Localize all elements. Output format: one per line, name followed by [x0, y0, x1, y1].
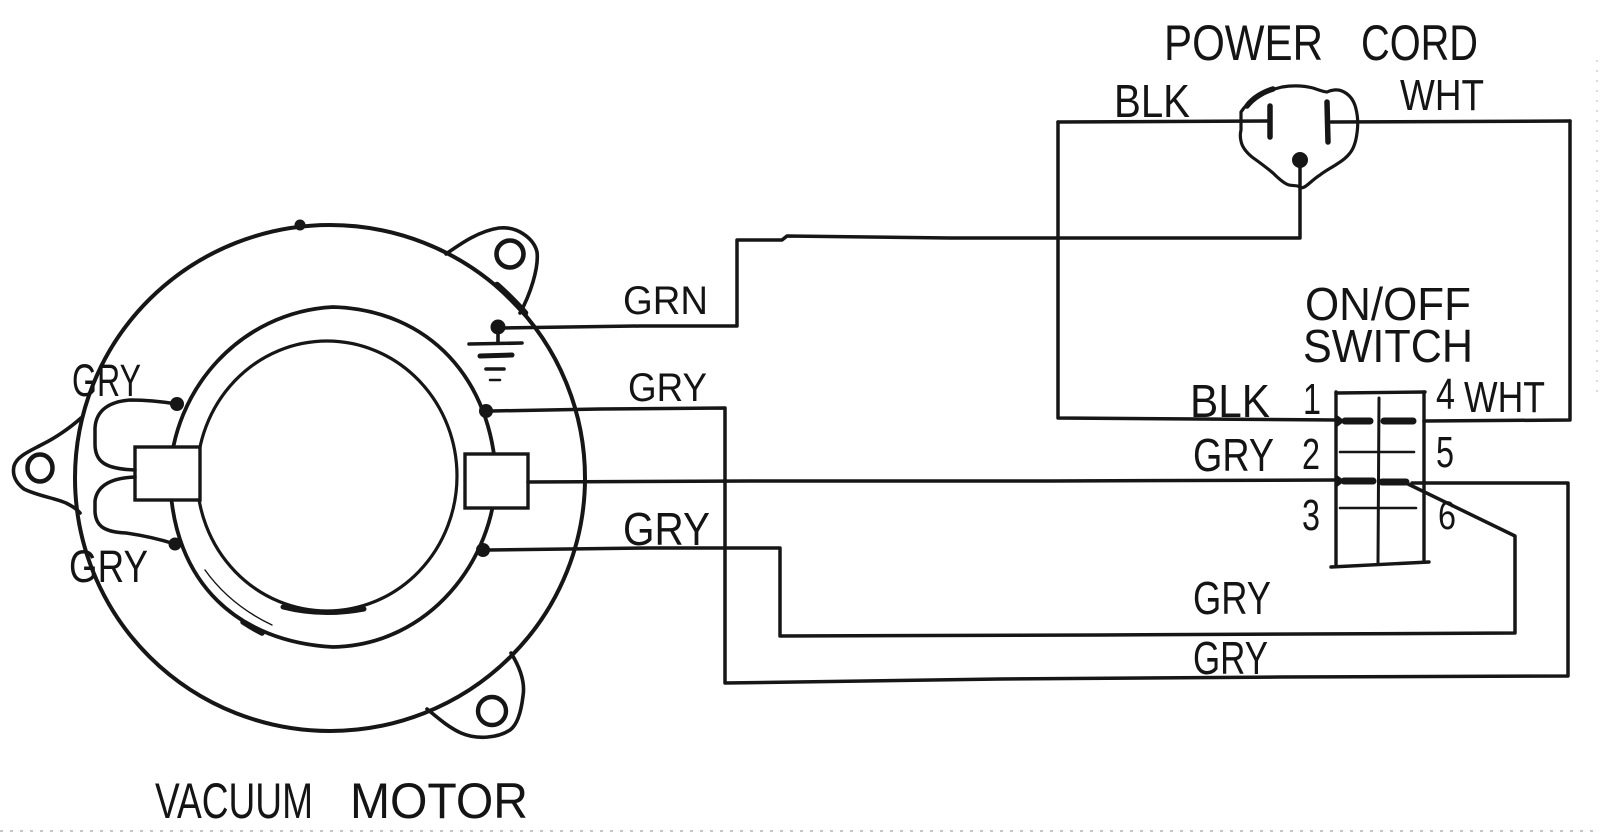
- brush box right: [465, 454, 528, 508]
- vacuum motor outer housing circle: [75, 225, 585, 731]
- switch contact row 2 line (pins 2-5): [1340, 451, 1414, 454]
- svg-text:VACUUM: VACUUM: [155, 773, 313, 829]
- node: winding top-left: [170, 397, 184, 411]
- svg-text:1: 1: [1303, 375, 1321, 424]
- wire WHT right drop: [1424, 121, 1570, 421]
- svg-text:GRY: GRY: [623, 503, 710, 555]
- svg-text:POWER: POWER: [1164, 15, 1323, 71]
- mounting tab bottom: [427, 653, 524, 737]
- svg-text:GRY: GRY: [69, 541, 148, 592]
- svg-text:GRY: GRY: [1193, 429, 1274, 481]
- mounting tab top-right: [446, 228, 537, 313]
- mounting tab hole top-right: [497, 241, 524, 268]
- stator overdraw dash bottom-left: [243, 622, 262, 633]
- svg-text:SWITCH: SWITCH: [1303, 320, 1473, 372]
- svg-text:4: 4: [1436, 370, 1455, 419]
- svg-text:GRN: GRN: [623, 279, 708, 323]
- plug ground pin dot: [1292, 152, 1308, 168]
- switch contact row 1 dashes (pins 1-4): [1345, 418, 1370, 425]
- scan artifact right edge dots: [1596, 60, 1598, 400]
- switch contact row 3 dashes: [1344, 478, 1373, 485]
- plug shoulder overdraw: [1247, 89, 1273, 106]
- svg-text:WHT: WHT: [1400, 71, 1484, 120]
- tab/housing overlap overdraw: [497, 285, 525, 313]
- svg-text:GRY: GRY: [1193, 632, 1268, 684]
- svg-text:GRY: GRY: [628, 366, 707, 410]
- svg-text:WHT: WHT: [1464, 373, 1545, 422]
- motor rotor (inner circle): [197, 341, 457, 611]
- node: ground tap: [491, 320, 506, 335]
- winding lead loop upper-left: [95, 400, 177, 470]
- svg-text:5: 5: [1436, 428, 1454, 477]
- node: winding bottom-right: [476, 543, 490, 557]
- plug prong left: [1267, 106, 1273, 137]
- plug prong right: [1327, 102, 1328, 142]
- svg-text:3: 3: [1302, 491, 1320, 540]
- switch actuator center line: [1378, 398, 1379, 563]
- scan artifact bottom dotted line: [0, 830, 1600, 832]
- rotor overdraw stroke bottom: [283, 607, 364, 613]
- mounting tab left: [13, 418, 81, 513]
- wire GRY top: winding top-right to switch pin 5 via bottom loop: [492, 408, 1568, 683]
- mounting tab hole bottom: [478, 697, 506, 725]
- power cord plug body: [1240, 86, 1357, 188]
- wire GRN: ground tap to power cord neutral pin: [503, 168, 1300, 328]
- winding lead loop lower-left: [95, 477, 175, 544]
- mounting tab hole left: [28, 455, 53, 482]
- switch contact row 4 line (pins 3-6): [1340, 507, 1416, 510]
- svg-text:CORD: CORD: [1361, 15, 1478, 71]
- svg-text:2: 2: [1302, 430, 1320, 479]
- svg-text:GRY: GRY: [1193, 572, 1271, 624]
- wire power cord top run BLK/WHT: [1058, 121, 1267, 122]
- svg-text:BLK: BLK: [1190, 375, 1270, 427]
- ground symbol: [469, 330, 522, 380]
- svg-text:BLK: BLK: [1114, 75, 1190, 127]
- svg-text:GRY: GRY: [72, 355, 141, 406]
- node: winding bottom-left: [169, 538, 182, 551]
- wire BLK left drop: [1058, 122, 1337, 420]
- node: winding top-right: [479, 404, 493, 418]
- junction tick pin 2: [1337, 475, 1345, 487]
- stator overdraw stroke lower-left: [205, 570, 272, 625]
- wire GRY middle: right brush to switch pin 2: [528, 480, 1337, 482]
- svg-text:6: 6: [1438, 494, 1456, 538]
- brush box left: [135, 447, 200, 500]
- motor stator ring (middle circle): [170, 307, 496, 647]
- junction tick pin 1: [1337, 415, 1345, 427]
- housing bolt dot top: [295, 220, 306, 231]
- wire GRY bottom: winding bottom-right to switch pin 5/6 via diagonal: [489, 484, 1515, 636]
- svg-text:MOTOR: MOTOR: [350, 773, 528, 829]
- on/off switch body: [1331, 392, 1429, 567]
